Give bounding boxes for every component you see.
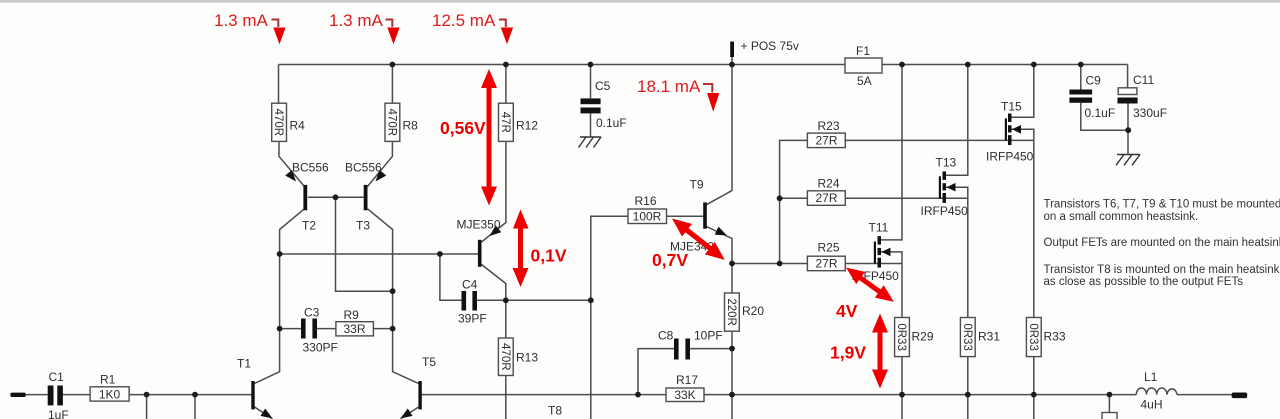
svg-text:0R33: 0R33 bbox=[1027, 323, 1039, 351]
svg-text:as close as possible to the ou: as close as possible to the output FETs bbox=[1044, 276, 1244, 288]
svg-text:+ POS 75v: + POS 75v bbox=[741, 39, 799, 53]
svg-text:IRFP450: IRFP450 bbox=[921, 204, 969, 218]
svg-text:C1: C1 bbox=[49, 370, 65, 384]
svg-text:470R: 470R bbox=[499, 343, 511, 371]
svg-text:R29: R29 bbox=[912, 330, 934, 344]
svg-text:R24: R24 bbox=[818, 177, 840, 191]
svg-text:C8: C8 bbox=[658, 329, 674, 343]
svg-text:T2: T2 bbox=[302, 219, 316, 233]
svg-text:IRFP450: IRFP450 bbox=[986, 150, 1034, 164]
svg-text:C5: C5 bbox=[595, 79, 611, 93]
svg-text:4V: 4V bbox=[836, 301, 858, 321]
svg-text:C3: C3 bbox=[304, 306, 320, 320]
svg-text:Output FETs are mounted on the: Output FETs are mounted on the main heat… bbox=[1044, 237, 1280, 249]
svg-text:100R: 100R bbox=[633, 210, 662, 224]
svg-text:C4: C4 bbox=[462, 278, 478, 292]
svg-text:33K: 33K bbox=[674, 388, 695, 402]
svg-text:T5: T5 bbox=[422, 355, 436, 369]
svg-text:330PF: 330PF bbox=[303, 341, 338, 355]
svg-text:T11: T11 bbox=[869, 221, 889, 235]
svg-text:F1: F1 bbox=[856, 44, 870, 58]
svg-text:27R: 27R bbox=[815, 134, 837, 148]
svg-text:470R: 470R bbox=[272, 109, 284, 137]
svg-text:BC556: BC556 bbox=[345, 161, 382, 175]
svg-text:MJE350: MJE350 bbox=[457, 218, 501, 232]
svg-text:10PF: 10PF bbox=[694, 329, 723, 343]
svg-text:1.3 mA: 1.3 mA bbox=[329, 11, 384, 30]
svg-text:1K0: 1K0 bbox=[99, 388, 121, 402]
svg-text:27R: 27R bbox=[815, 191, 837, 205]
svg-text:12.5 mA: 12.5 mA bbox=[432, 11, 496, 30]
svg-text:0.1uF: 0.1uF bbox=[1085, 106, 1116, 120]
svg-text:R1: R1 bbox=[100, 373, 116, 387]
svg-text:47R: 47R bbox=[499, 112, 511, 133]
svg-text:0,1V: 0,1V bbox=[531, 246, 567, 266]
svg-text:39PF: 39PF bbox=[458, 312, 487, 326]
svg-text:470R: 470R bbox=[385, 109, 397, 137]
svg-text:R4: R4 bbox=[290, 119, 306, 133]
svg-text:on a small common heastsink.: on a small common heastsink. bbox=[1044, 211, 1199, 223]
svg-text:1,9V: 1,9V bbox=[830, 343, 866, 363]
svg-text:L1: L1 bbox=[1144, 370, 1158, 384]
svg-text:R9: R9 bbox=[344, 308, 360, 322]
svg-text:T15: T15 bbox=[1001, 100, 1022, 114]
svg-text:18.1 mA: 18.1 mA bbox=[637, 77, 701, 96]
svg-text:27R: 27R bbox=[815, 257, 837, 271]
svg-text:R12: R12 bbox=[516, 119, 538, 133]
svg-text:R33: R33 bbox=[1044, 330, 1066, 344]
svg-text:33R: 33R bbox=[343, 322, 365, 336]
svg-text:1.3 mA: 1.3 mA bbox=[214, 11, 269, 30]
svg-text:R16: R16 bbox=[635, 194, 657, 208]
svg-text:R25: R25 bbox=[818, 241, 840, 255]
svg-text:4uH: 4uH bbox=[1141, 398, 1163, 412]
svg-text:0,7V: 0,7V bbox=[652, 250, 688, 270]
svg-text:R8: R8 bbox=[403, 119, 419, 133]
svg-text:0,56V: 0,56V bbox=[440, 118, 486, 138]
svg-text:0R33: 0R33 bbox=[895, 323, 907, 351]
svg-text:T9: T9 bbox=[690, 178, 704, 192]
svg-text:T13: T13 bbox=[936, 156, 957, 170]
svg-text:R31: R31 bbox=[978, 330, 1000, 344]
svg-text:R23: R23 bbox=[818, 119, 840, 133]
svg-text:0R33: 0R33 bbox=[961, 323, 973, 351]
svg-text:T1: T1 bbox=[237, 357, 251, 371]
svg-text:5A: 5A bbox=[857, 74, 872, 88]
svg-text:BC556: BC556 bbox=[292, 161, 329, 175]
svg-text:T3: T3 bbox=[356, 219, 370, 233]
svg-text:C11: C11 bbox=[1133, 73, 1154, 87]
svg-text:T8: T8 bbox=[548, 404, 562, 418]
svg-text:C9: C9 bbox=[1086, 74, 1102, 88]
svg-text:220R: 220R bbox=[725, 298, 737, 326]
svg-text:R13: R13 bbox=[516, 351, 538, 365]
svg-text:330uF: 330uF bbox=[1133, 106, 1167, 120]
svg-text:R20: R20 bbox=[742, 304, 764, 318]
svg-text:Transistors T6, T7, T9 & T10 m: Transistors T6, T7, T9 & T10 must be mou… bbox=[1044, 199, 1280, 211]
svg-text:1uF: 1uF bbox=[48, 408, 69, 419]
svg-text:Transistor T8 is mounted on th: Transistor T8 is mounted on the main hea… bbox=[1044, 264, 1280, 276]
svg-text:R17: R17 bbox=[676, 373, 698, 387]
svg-text:0.1uF: 0.1uF bbox=[596, 116, 627, 130]
